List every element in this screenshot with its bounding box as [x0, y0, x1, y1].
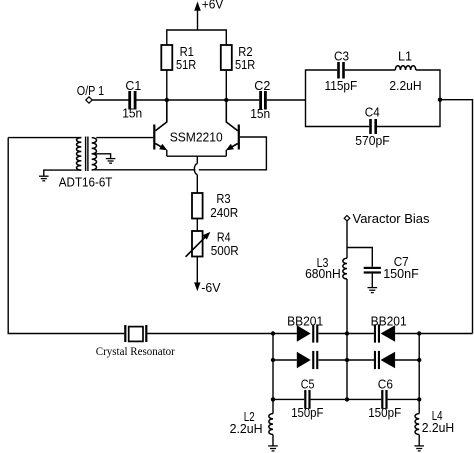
wire Q2 base loop [199, 137, 267, 170]
terminal O/P 1 [86, 97, 92, 103]
crystal X1 [124, 325, 147, 342]
L4 value label [422, 408, 455, 435]
svg-text:ADT16-6T: ADT16-6T [59, 175, 113, 190]
wire emitter to R3 with hop [194, 156, 197, 193]
wire tank output to right rail [440, 100, 473, 334]
inductor L2 [269, 414, 273, 435]
L3 value label [305, 255, 341, 281]
ground L4 [414, 446, 424, 451]
wire R2 bottom to node [225, 70, 227, 100]
ground center tap [106, 159, 116, 164]
svg-text:150pF: 150pF [368, 405, 401, 420]
transistor Q2 of SSM2210 [226, 100, 240, 156]
svg-text:150pF: 150pF [291, 405, 323, 420]
resistor R1 [161, 45, 172, 70]
capacitor C6 [381, 390, 387, 409]
wire O/P to C1 [92, 99, 128, 101]
capacitor C1 [128, 91, 136, 110]
inductor L4 [415, 414, 419, 435]
wire C2 to tank [267, 99, 306, 101]
wire row2 left [273, 359, 297, 361]
wire C6 to right rail [388, 398, 420, 400]
svg-text:2.2uH: 2.2uH [422, 420, 455, 435]
wire C1 to base rail node A [136, 99, 226, 101]
node B dot [224, 98, 228, 102]
R3 value label [210, 191, 238, 220]
capacitor C7 [364, 267, 381, 274]
power +6V arrow [194, 2, 201, 31]
C1 value label [122, 78, 142, 121]
svg-text:C2: C2 [254, 78, 270, 93]
svg-text:C5: C5 [301, 377, 315, 392]
svg-text:Crystal Resonator: Crystal Resonator [96, 346, 175, 358]
wire L4 to ground [418, 435, 420, 446]
C3 value label [325, 49, 358, 94]
node dots C row [271, 397, 422, 401]
L2 value label [230, 409, 263, 436]
svg-text:BB201: BB201 [371, 314, 407, 329]
svg-text:15n: 15n [122, 106, 142, 121]
varactor D2 row1 right [374, 324, 395, 342]
wire left varactor rail [272, 334, 274, 400]
resistor R4 variable [186, 231, 211, 257]
transformer T1 ADT16-6T [77, 137, 97, 172]
node A dot [165, 98, 169, 102]
wire row2 middle [318, 359, 374, 361]
inductor L3 [343, 258, 347, 279]
wire row2 right [395, 359, 419, 361]
tank circuit loop wires [306, 70, 441, 127]
svg-text:Varactor Bias: Varactor Bias [353, 211, 430, 226]
node C dot tank output [438, 98, 442, 102]
wire secondary center tap [92, 154, 111, 158]
svg-text:15n: 15n [250, 106, 270, 121]
wire middle varactor rail [346, 334, 348, 400]
svg-text:51R: 51R [176, 57, 196, 72]
C5 value label [291, 377, 323, 421]
wire primary bottom to ground [44, 170, 82, 176]
ground C7 [368, 288, 378, 293]
wire row1 right [395, 333, 472, 335]
C2 value label [250, 78, 270, 121]
varactor D1 row1 left [297, 324, 319, 342]
ground L2 [268, 446, 278, 451]
wire right varactor rail [418, 334, 420, 400]
wire C5 row left [273, 398, 304, 400]
svg-text:240R: 240R [210, 205, 238, 220]
wire Q1 base to transformer [96, 137, 153, 139]
svg-text:2.2uH: 2.2uH [389, 78, 421, 93]
wire left rail to L2 [272, 399, 274, 413]
svg-text:51R: 51R [235, 57, 255, 72]
resistor R2 [221, 45, 232, 70]
wire right rail to L4 [418, 399, 420, 413]
capacitor C3 [337, 62, 345, 79]
wire L3 to row1 [346, 279, 348, 334]
svg-text:150nF: 150nF [383, 266, 419, 281]
svg-text:2.2uH: 2.2uH [230, 421, 263, 436]
node dots row1 [271, 331, 422, 335]
secondary winding [92, 138, 97, 170]
primary winding [77, 138, 82, 170]
C4 value label [355, 105, 390, 149]
core lines [86, 137, 88, 172]
wire C7 to ground [371, 274, 373, 288]
varactor D4 row2 right [374, 351, 395, 369]
transistor Q1 of SSM2210 [153, 100, 167, 156]
ground primary [39, 176, 49, 181]
wire left feedback rail [8, 138, 124, 334]
svg-text:500R: 500R [211, 243, 239, 258]
node dots row2 [271, 358, 422, 362]
wire transformer bottom to hop [92, 169, 196, 171]
wire emitter bus [167, 155, 227, 157]
wire C5 to middle [311, 398, 382, 400]
power -6V arrow [194, 257, 200, 292]
L1 value label [389, 49, 421, 94]
wire crystal to varactor row1 [147, 333, 296, 335]
svg-text:C1: C1 [125, 78, 141, 93]
R4 value label [211, 230, 239, 258]
R1 value label [176, 44, 196, 72]
svg-text:680nH: 680nH [305, 266, 341, 281]
wire primary top to left rail [8, 137, 81, 139]
svg-text:C4: C4 [365, 105, 380, 120]
svg-text:570pF: 570pF [355, 133, 390, 148]
wire R3 to R4 [196, 219, 198, 232]
C7 value label [383, 254, 419, 281]
svg-text:SSM2210: SSM2210 [170, 130, 223, 145]
capacitor C2 [259, 91, 267, 110]
wire R1 bottom to node [166, 70, 168, 100]
varactor D3 row2 left [297, 351, 319, 369]
svg-text:+6V: +6V [202, 0, 224, 12]
svg-text:C3: C3 [334, 49, 349, 64]
C6 value label [368, 377, 401, 421]
wire top supply rail [167, 30, 227, 45]
capacitor C4 [369, 119, 377, 134]
svg-text:L1: L1 [398, 49, 412, 64]
svg-text:115pF: 115pF [325, 78, 358, 93]
resistor R3 [192, 193, 203, 219]
wire node B to C2 [226, 99, 259, 101]
svg-text:R3: R3 [216, 191, 230, 206]
R2 value label [235, 44, 255, 72]
inductor L1 [395, 66, 415, 70]
wire row1 middle [318, 333, 374, 335]
wire L2 to ground [272, 435, 274, 446]
terminal Varactor Bias [344, 216, 350, 221]
wire bias tap to C7 [347, 248, 372, 267]
svg-text:-6V: -6V [201, 280, 221, 295]
wire bias to L3 [346, 221, 348, 258]
svg-text:O/P 1: O/P 1 [77, 83, 104, 98]
svg-text:C6: C6 [378, 377, 393, 392]
capacitor C5 [304, 390, 310, 409]
